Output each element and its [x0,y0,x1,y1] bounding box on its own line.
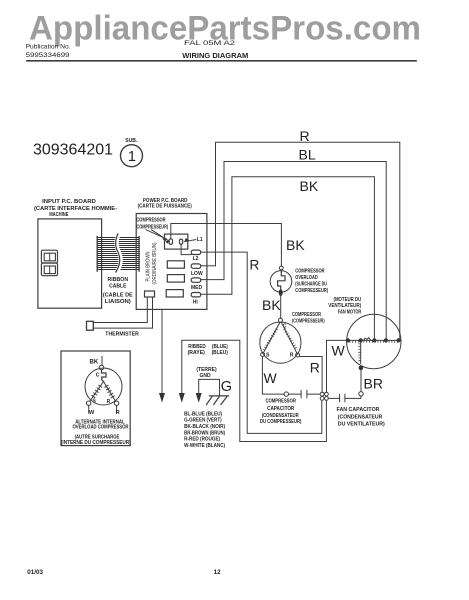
svg-text:R: R [290,352,294,358]
label BK (upper) [286,237,305,253]
input P.C. board [38,219,102,308]
svg-text:INPUT P.C. BOARD: INPUT P.C. BOARD [42,199,96,205]
svg-text:(COMPRESSEUR): (COMPRESSEUR) [292,318,325,324]
svg-text:BL: BL [299,146,316,162]
svg-text:LOW: LOW [191,271,203,277]
svg-text:COMPRESSOR: COMPRESSOR [265,399,296,405]
svg-text:R: R [250,258,260,273]
svg-text:GND: GND [199,373,211,379]
wire color legend [184,411,225,449]
compressor relay box [165,234,188,249]
compressor capacitor terminal [284,392,288,396]
svg-text:12: 12 [214,569,222,576]
alternate windings [90,382,104,402]
svg-text:BK: BK [90,360,99,366]
relay output rect 3 [166,290,183,297]
fan winding taps [346,338,350,342]
wire BL loop (MED to fan motor) [224,162,386,340]
wire L2 to R drop [201,252,322,433]
ground symbol [207,396,229,405]
compressor S terminal [261,353,265,357]
svg-text:RIBBON: RIBBON [108,277,129,283]
alternate compressor box [61,351,130,446]
svg-text:COMPRESSEUR): COMPRESSEUR) [136,225,168,231]
svg-text:R: R [300,128,310,144]
svg-text:R-RED (ROUGE): R-RED (ROUGE) [184,437,220,443]
wire R loop (LOW to fan motor) [216,142,400,339]
wire HI to BK loop [201,293,232,295]
wire LOW to R loop [201,265,216,267]
svg-text:COMPRESSEUR): COMPRESSEUR) [295,288,328,294]
ground arrow wire (plain brown) [161,309,163,392]
svg-text:(TERRE): (TERRE) [196,367,217,373]
wire BR fan to capacitor [360,368,362,391]
compressor overload terminal [279,266,283,270]
label BK top [300,178,319,194]
alternate C terminal [99,365,104,370]
svg-text:(CABLE DE: (CABLE DE [103,293,133,299]
svg-text:COMPRESSOR: COMPRESSOR [295,268,324,274]
svg-text:FAN MOTOR: FAN MOTOR [338,310,361,316]
svg-text:G: G [221,379,232,395]
label G [221,379,232,395]
svg-text:CABLE: CABLE [109,284,127,290]
svg-text:G-GREEN (VERT): G-GREEN (VERT) [184,418,222,424]
sub revision circle 1 [121,145,143,167]
svg-text:(RAYE): (RAYE) [188,350,205,356]
svg-text:OVERLOAD COMPRESSOR: OVERLOAD COMPRESSOR [73,425,129,431]
svg-text:BK: BK [262,297,281,313]
thermister wires [93,297,147,323]
svg-text:(CARTE DE PUISSANCE): (CARTE DE PUISSANCE) [138,204,192,210]
svg-text:(INTERNE DU COMPRESSEUR): (INTERNE DU COMPRESSEUR) [61,440,131,446]
title rule line [27,60,416,62]
svg-text:309364201: 309364201 [33,141,113,158]
fan main winding [347,339,401,341]
svg-text:MACHINE: MACHINE [49,212,69,218]
svg-text:(SURCHARGE DU: (SURCHARGE DU [295,281,327,287]
watermark logo AppliancePartsPros.com [29,10,421,48]
label BK (alternate) [90,360,99,366]
compressor windings [264,323,280,353]
tab L2 [191,250,201,254]
wire R terminal to junction [300,357,323,393]
compressor overload [270,271,292,293]
relay pin 1 [169,239,172,245]
svg-text:W-WHITE (BLANC): W-WHITE (BLANC) [184,443,225,449]
thermister connector on board [145,291,155,297]
svg-text:R: R [310,359,320,375]
svg-text:W: W [264,370,278,386]
junction cluster [320,392,324,396]
svg-text:COMPRESSOR: COMPRESSOR [136,217,165,223]
fan motor [347,314,401,368]
wire W from S to compressor capacitor [262,357,284,395]
svg-text:W: W [89,410,95,416]
svg-text:MED: MED [191,285,203,291]
svg-text:01/03: 01/03 [27,569,43,576]
part number 309364201 [33,138,138,158]
svg-text:W: W [332,343,346,359]
alternate S terminal [87,401,91,405]
svg-text:DU VENTILATEUR): DU VENTILATEUR) [338,421,385,427]
svg-text:S: S [266,352,270,358]
svg-text:LIAISON): LIAISON) [105,299,131,305]
relay output rect 1 [167,261,184,268]
tab MED [191,278,201,282]
wire pin2 to L2 tab [181,244,191,254]
svg-text:5995334699: 5995334699 [26,52,71,59]
svg-text:HI: HI [193,299,199,305]
label W (compressor) [264,370,278,386]
svg-text:C: C [96,373,100,379]
svg-text:BK: BK [286,237,305,253]
label L1 with arrow [197,237,203,243]
label BK (lower) [262,297,281,313]
fan aux winding BR [360,340,362,363]
svg-text:R: R [107,399,111,405]
label R (near junction) [310,359,320,375]
svg-text:WIRING DIAGRAM: WIRING DIAGRAM [182,53,248,60]
fan capacitor [328,394,361,402]
alternate compressor motor [85,368,122,405]
svg-text:SUB.: SUB. [125,138,138,144]
svg-text:FAL 05M A2: FAL 05M A2 [184,40,236,47]
label R (L2 wire) [250,258,260,273]
node dot BK at fan winding [372,338,376,342]
label BL top [299,146,316,162]
svg-text:L2: L2 [193,256,199,262]
footer date [27,569,221,576]
svg-text:THERMISTER: THERMISTER [105,332,139,338]
label R top [300,128,310,144]
svg-text:BL-BLUE (BLEU): BL-BLUE (BLEU) [184,411,222,417]
svg-text:BR-BROWN (BRUN): BR-BROWN (BRUN) [184,430,225,436]
node dot R at fan winding [396,338,400,342]
svg-text:Publication No.: Publication No. [26,44,71,51]
title block publication text [26,40,249,60]
node dot BL at fan winding [384,338,388,342]
compressor relay leader arrows [146,230,167,239]
wire to alternate C [101,357,103,366]
alternate stubs [88,405,90,413]
svg-text:CAPACITOR: CAPACITOR [267,406,294,412]
display window 1 [41,250,57,263]
wire BK loop (HI to fan motor) [232,177,375,340]
ribbed blue ground wire bracket [182,340,327,441]
alternate internal overload element [102,370,107,382]
label W (fan) [332,343,346,359]
relay output rect 2 [167,275,184,283]
display window 2 [41,263,57,276]
svg-text:L1: L1 [197,237,203,243]
svg-text:DU COMPRESSEUR): DU COMPRESSEUR) [260,419,302,425]
vertical label plain brown [145,242,158,284]
alternate R terminal [114,401,118,405]
relay pin 2 L1 [180,239,183,244]
GND bracket [199,379,220,396]
svg-text:1: 1 [128,149,136,165]
wire BK from relay to overload [171,224,282,267]
svg-text:FAN CAPACITOR: FAN CAPACITOR [337,407,380,413]
thermister body [87,321,94,330]
svg-text:(BLEU): (BLEU) [212,350,228,356]
svg-text:OVERLOAD: OVERLOAD [295,275,317,281]
compressor motor [260,322,301,363]
svg-text:BK: BK [300,178,319,194]
compressor C terminal [279,318,283,322]
svg-text:(CARTE INTERFACE HOMMIE-: (CARTE INTERFACE HOMMIE- [34,206,117,212]
ribbon break symbol [117,234,121,272]
svg-text:PLAIN BROWN: PLAIN BROWN [145,251,151,281]
svg-text:COMPRESSOR: COMPRESSOR [292,312,321,318]
svg-text:(ORDINAIRE BRUN): (ORDINAIRE BRUN) [152,242,158,284]
label BR [364,376,383,392]
power P.C. board [136,214,207,310]
svg-text:R: R [116,410,120,416]
wire W from fan motor [327,340,347,392]
compressor R terminal [296,353,300,357]
tab HI [191,293,201,297]
wire MED to BL loop [201,279,224,281]
ribbon cable [97,234,139,272]
svg-text:BR: BR [364,376,383,392]
svg-text:(MOTEUR DU: (MOTEUR DU [334,297,362,303]
tab LOW [191,264,201,268]
svg-text:(CONDENSATEUR: (CONDENSATEUR [338,414,383,420]
compressor capacitor [289,390,321,397]
wire overload to compressor [280,296,282,318]
svg-text:VENTILATEUR): VENTILATEUR) [328,303,361,309]
compressor relay label [136,217,168,230]
svg-text:BK-BLACK (NOIR): BK-BLACK (NOIR) [184,424,225,430]
